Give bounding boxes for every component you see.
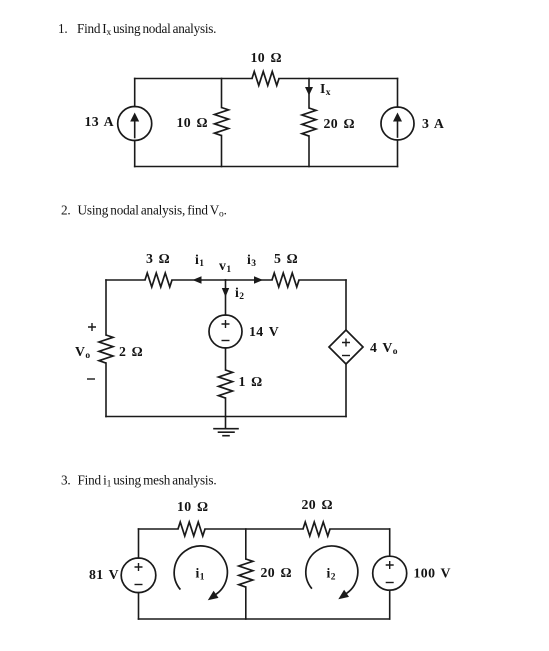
wire middle branch upper P2	[225, 280, 227, 315]
svg-text:3 A: 3 A	[422, 116, 444, 131]
resistor 1ohm P2	[219, 370, 233, 398]
wire left P2 lower	[105, 363, 107, 417]
svg-text:20 Ω: 20 Ω	[261, 565, 292, 580]
wire left P2 upper	[105, 280, 107, 335]
current source 13A	[118, 107, 152, 141]
svg-text:20 Ω: 20 Ω	[302, 497, 333, 512]
wire right P2 upper	[345, 280, 347, 330]
arrow Ix	[305, 87, 313, 96]
wire middle branch lower P2	[225, 398, 227, 417]
voltage source 81V	[121, 558, 156, 593]
wire node B lower P1	[308, 136, 310, 167]
svg-text:20 Ω: 20 Ω	[324, 116, 355, 131]
svg-text:10 Ω: 10 Ω	[177, 499, 208, 514]
wire bottom P1	[135, 166, 398, 168]
wire bottom P3	[139, 618, 390, 620]
resistor 20ohm vertical P1	[302, 108, 316, 136]
svg-text:3.Find i1 using mesh analysis.: 3.Find i1 using mesh analysis.	[61, 473, 216, 490]
voltage source 14V	[209, 315, 242, 348]
wire middle node lower P3	[245, 587, 247, 619]
wire top-right P2	[299, 279, 346, 281]
svg-text:10 Ω: 10 Ω	[177, 115, 208, 130]
resistor 10ohm P3	[178, 522, 205, 536]
svg-text:1.Find Ix using nodal analysis: 1.Find Ix using nodal analysis.	[58, 21, 216, 38]
mesh current arrow i2	[306, 546, 358, 599]
svg-text:14 V: 14 V	[249, 324, 279, 339]
wire node B upper with Ix P1	[308, 79, 310, 109]
svg-text:3 Ω: 3 Ω	[146, 251, 170, 266]
arrow i2	[222, 288, 229, 297]
wire top-mid-right P2	[226, 279, 273, 281]
wire node A lower P1	[221, 136, 223, 167]
minus sign Vo	[87, 378, 95, 380]
arrow i1	[193, 276, 202, 283]
svg-text:2.Using nodal analysis, find V: 2.Using nodal analysis, find Vo.	[61, 203, 227, 220]
wire right P2 lower	[345, 364, 347, 417]
wire right P3 lower	[389, 590, 391, 619]
mesh current arrow i1	[174, 546, 227, 600]
svg-text:100 V: 100 V	[414, 566, 451, 581]
svg-text:2 Ω: 2 Ω	[119, 344, 143, 359]
wire right P1 lower	[397, 140, 399, 167]
wire top-right P1	[279, 78, 398, 80]
wire top-mid P2	[172, 279, 226, 281]
voltage source 100V	[373, 556, 407, 590]
wire left P3 upper	[138, 529, 140, 558]
resistor 20ohm vertical P3	[239, 559, 253, 587]
resistor 20ohm top P3	[303, 522, 330, 536]
current source 3A	[381, 107, 414, 140]
svg-text:13 A: 13 A	[84, 114, 114, 129]
wire top-left P2	[106, 279, 145, 281]
wire node A upper P1	[221, 79, 223, 108]
wire left P3 lower	[138, 593, 140, 619]
arrow i3	[254, 276, 263, 283]
resistor 5ohm P2	[272, 273, 299, 287]
ground	[214, 417, 238, 436]
wire right P1 upper	[397, 79, 399, 108]
resistor 10ohm vertical P1	[215, 108, 229, 136]
resistor 10ohm horizontal P1	[252, 72, 279, 86]
wire bottom P2	[106, 416, 346, 418]
resistor 2ohm P2	[99, 335, 113, 363]
svg-text:5 Ω: 5 Ω	[274, 251, 298, 266]
wire middle branch mid P2	[225, 348, 227, 370]
wire top-left P3	[139, 528, 179, 530]
dependent source 4Vo diamond	[329, 330, 363, 364]
svg-text:1 Ω: 1 Ω	[239, 374, 263, 389]
plus sign Vo	[88, 323, 96, 331]
wire left P1 lower	[134, 141, 136, 167]
wire top-left P1	[135, 78, 252, 80]
wire top-mid P3	[205, 528, 303, 530]
wire middle node upper P3	[245, 529, 247, 559]
wire top-right P3	[330, 528, 390, 530]
wire right P3 upper	[389, 529, 391, 556]
wire left P1 upper	[134, 79, 136, 107]
svg-text:81 V: 81 V	[89, 567, 119, 582]
resistor 3ohm P2	[145, 273, 172, 287]
svg-text:10 Ω: 10 Ω	[251, 50, 282, 65]
